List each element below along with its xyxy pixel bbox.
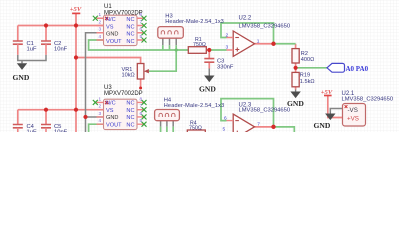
svg-text:GND: GND xyxy=(314,121,331,130)
svg-text:NC: NC xyxy=(126,39,134,45)
svg-text:8: 8 xyxy=(140,12,143,17)
svg-text:R19: R19 xyxy=(300,73,310,79)
svg-text:GND: GND xyxy=(13,73,30,82)
svg-text:C3: C3 xyxy=(217,59,224,65)
svg-text:750Ω: 750Ω xyxy=(189,125,202,131)
svg-text:6: 6 xyxy=(140,111,143,116)
svg-text:+5V: +5V xyxy=(70,6,82,13)
svg-text:GND: GND xyxy=(106,32,118,38)
svg-text:NC: NC xyxy=(126,101,134,107)
svg-text:10kΩ: 10kΩ xyxy=(122,73,135,79)
svg-text:GND: GND xyxy=(106,115,118,121)
svg-text:5: 5 xyxy=(140,118,143,123)
svg-text:7: 7 xyxy=(257,122,260,128)
svg-text:8: 8 xyxy=(140,96,143,101)
svg-text:2: 2 xyxy=(98,104,101,109)
svg-text:1: 1 xyxy=(257,38,260,44)
svg-text:MPXV7002DP: MPXV7002DP xyxy=(104,10,143,16)
svg-text:U1: U1 xyxy=(104,4,112,10)
svg-text:400Ω: 400Ω xyxy=(301,57,315,63)
svg-text:A0 PA0: A0 PA0 xyxy=(346,65,369,73)
svg-text:U2.2: U2.2 xyxy=(239,16,252,22)
svg-text:NC: NC xyxy=(126,122,134,128)
svg-text:1: 1 xyxy=(98,96,101,101)
svg-text:Header-Male-2.54_1x3: Header-Male-2.54_1x3 xyxy=(164,103,225,109)
svg-text:NC: NC xyxy=(126,25,134,31)
svg-text:1uF: 1uF xyxy=(27,47,37,53)
svg-text:2: 2 xyxy=(98,19,101,24)
svg-text:1uF: 1uF xyxy=(27,130,37,133)
svg-text:LMV358_C3294650: LMV358_C3294650 xyxy=(342,96,394,102)
svg-text:GND: GND xyxy=(287,99,304,108)
svg-text:1.5kΩ: 1.5kΩ xyxy=(300,79,315,85)
svg-text:2: 2 xyxy=(226,33,229,39)
svg-text:3: 3 xyxy=(98,111,101,116)
svg-text:330nF: 330nF xyxy=(217,65,234,71)
svg-text:Header-Male-2.54_1x3: Header-Male-2.54_1x3 xyxy=(165,19,224,25)
svg-text:4: 4 xyxy=(98,118,101,123)
svg-text:3: 3 xyxy=(226,45,229,51)
svg-text:3: 3 xyxy=(98,27,101,32)
svg-text:4: 4 xyxy=(98,34,101,39)
svg-text:MPXV7002DP: MPXV7002DP xyxy=(104,91,143,97)
svg-text:6: 6 xyxy=(140,27,143,32)
svg-text:VOUT: VOUT xyxy=(106,39,122,45)
svg-text:NC: NC xyxy=(126,108,134,114)
svg-text:1: 1 xyxy=(98,12,101,17)
svg-text:-VS: -VS xyxy=(348,107,358,114)
svg-text:750Ω: 750Ω xyxy=(193,42,206,48)
svg-text:LMV358_C3294650: LMV358_C3294650 xyxy=(239,108,291,114)
svg-text:7: 7 xyxy=(140,104,143,109)
svg-text:N/C: N/C xyxy=(106,101,116,107)
svg-text:VOUT: VOUT xyxy=(106,122,122,128)
svg-text:5: 5 xyxy=(223,126,226,132)
svg-text:+VS: +VS xyxy=(347,115,359,122)
svg-text:N/C: N/C xyxy=(106,17,116,23)
svg-text:NC: NC xyxy=(126,32,134,38)
svg-text:10nF: 10nF xyxy=(54,47,68,53)
svg-text:10nF: 10nF xyxy=(54,130,68,133)
svg-text:GND: GND xyxy=(199,85,216,94)
svg-text:LMV358_C3294650: LMV358_C3294650 xyxy=(239,23,291,29)
svg-text:U3: U3 xyxy=(104,85,112,91)
svg-text:NC: NC xyxy=(126,115,134,121)
svg-text:VS: VS xyxy=(106,108,114,114)
svg-text:NC: NC xyxy=(126,17,134,23)
svg-text:7: 7 xyxy=(140,19,143,24)
svg-text:5: 5 xyxy=(140,34,143,39)
svg-text:VS: VS xyxy=(106,25,114,31)
svg-text:+5V: +5V xyxy=(321,89,333,96)
svg-text:6: 6 xyxy=(224,116,227,122)
